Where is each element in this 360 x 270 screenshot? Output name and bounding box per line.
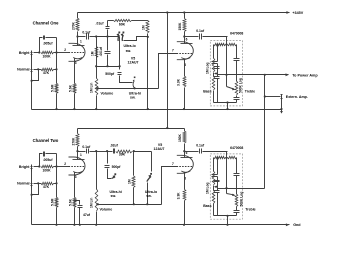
wire 150K top ch1 bbox=[184, 13, 186, 19]
node bright input ch1 bbox=[38, 51, 40, 53]
wire cathode down ch2 bbox=[74, 173, 76, 198]
resistor 39K ch2 bbox=[116, 150, 132, 153]
wire ultra-lo arm to wiper bus ch2 bbox=[147, 183, 149, 205]
wire wiper bus to grid pin7 ch2 bbox=[162, 167, 177, 205]
wire 5.6M to ground ch1 bbox=[56, 94, 58, 110]
wire 1M down to ground bus ch1 bbox=[147, 34, 149, 110]
junction 3.3K ground ch2 bbox=[183, 224, 185, 226]
wire plate to node ch1 bbox=[77, 37, 79, 46]
resistor 5.6M ch1 bbox=[55, 83, 58, 93]
svg-text:Bass: Bass bbox=[203, 204, 211, 208]
svg-text:0.1uf: 0.1uf bbox=[82, 30, 91, 34]
capacitor treble top ch1 bbox=[234, 58, 240, 60]
svg-text:39K: 39K bbox=[119, 152, 126, 156]
resistor stack input left ch1 bbox=[214, 43, 226, 45]
wire B+ feed down to ch2 sub-rail bbox=[167, 13, 169, 129]
wire volume feed down ch1 bbox=[96, 37, 98, 67]
wire pot top section ch2 bbox=[96, 181, 98, 190]
plate second triode ch2 bbox=[181, 157, 193, 159]
wire normal jack to 47K ch2 bbox=[34, 183, 42, 185]
wire bright jack to node ch2 bbox=[34, 166, 40, 168]
wiper treble pot ch1 bbox=[227, 87, 234, 90]
wire tone cap to stack ch1 bbox=[203, 36, 228, 38]
potentiometer 1M Log bass lower ch2 bbox=[212, 191, 215, 204]
svg-text:Volume: Volume bbox=[100, 208, 113, 212]
wire 270K bottom ch1 bbox=[77, 32, 79, 37]
wiper volume pot ch1 bbox=[97, 87, 99, 89]
wire output to power amp ch1 bbox=[227, 74, 289, 76]
junction shorting contact ch1 bbox=[31, 80, 33, 82]
wire cathode to ground ch1 bbox=[74, 94, 76, 110]
junction stack ground node ch2 bbox=[226, 215, 228, 217]
junction output node ch2 bbox=[225, 187, 227, 189]
svg-text:.005uf: .005uf bbox=[43, 158, 54, 162]
resistor 100K ch1 bbox=[41, 51, 54, 54]
wire jack column upper ch1 bbox=[31, 58, 33, 68]
wire treble cap top ch1 bbox=[236, 45, 238, 59]
wire wiper bus ch2 bbox=[98, 204, 162, 206]
triode first stage ch1 bbox=[69, 43, 86, 61]
resistor 1M ch2 bbox=[132, 176, 135, 188]
wire 150K top ch2 bbox=[184, 129, 186, 132]
switch ultra-hi ch1 bbox=[134, 77, 136, 79]
wire treble cap to pot ch2 bbox=[236, 176, 238, 195]
wire plate to coupling cap ch2 bbox=[78, 151, 86, 153]
svg-text:500pf: 500pf bbox=[105, 72, 115, 76]
resistor 47K ch2 bbox=[41, 182, 54, 185]
wire plate2 to tone cap ch2 bbox=[185, 151, 199, 153]
wire bass caps mid ch2 bbox=[217, 177, 219, 191]
wire switch right pole to 1M node ch1 bbox=[124, 37, 148, 41]
grid dashed first triode ch2 bbox=[69, 166, 85, 168]
wire output ch2 to junction bbox=[227, 188, 265, 190]
wiper bass pot ch2 bbox=[214, 186, 217, 189]
junction wiper to bus ch2 bbox=[96, 203, 98, 205]
svg-text:3.3K: 3.3K bbox=[177, 78, 181, 86]
junction cathode ground ch1 bbox=[73, 108, 75, 110]
junction cathode ground ch2 bbox=[73, 224, 75, 226]
wire grid node vertical ch2 bbox=[56, 167, 58, 184]
wire pot top section ch1 bbox=[96, 67, 98, 79]
wire bass caps mid ch1 bbox=[217, 64, 219, 77]
wire treble pot to cap ch1 bbox=[236, 96, 238, 98]
resistor stack input right ch1 bbox=[228, 43, 237, 45]
junction ultra-hi wiper bus ch1 bbox=[134, 87, 136, 89]
resistor 1M volume feed ch1 bbox=[95, 47, 98, 58]
resistor 3.3K ch1 bbox=[183, 76, 186, 87]
junction 3.3K ground ch1 bbox=[183, 108, 185, 110]
svg-text:V5: V5 bbox=[158, 143, 162, 147]
wire cap to wire A ch1 bbox=[107, 55, 109, 67]
resistor 1M ch1 bbox=[146, 20, 149, 33]
junction volume feed node ch1 bbox=[95, 35, 97, 37]
wire 39K to ultra-lo ch2 bbox=[133, 151, 152, 153]
capacitor .005uf ch2 bbox=[43, 152, 45, 157]
resistor 3.3K ch2 bbox=[183, 189, 186, 200]
wire 47K to grid node ch1 bbox=[54, 69, 57, 71]
wire loop top right ch1 bbox=[132, 20, 148, 22]
junction ultra-lo branch ch1 bbox=[106, 35, 108, 37]
junction grid node ch1 bbox=[55, 51, 57, 53]
svg-text:150K: 150K bbox=[178, 22, 182, 31]
wire 500pf to ultra-hi switch ch1 bbox=[120, 76, 133, 83]
wire 47K to grid node ch2 bbox=[54, 183, 57, 185]
wire cap to loop top ch1 bbox=[107, 21, 109, 27]
wire stack entry ch1 bbox=[226, 37, 228, 87]
svg-text:Normal: Normal bbox=[17, 182, 29, 186]
capacitor bass 1 ch1 bbox=[212, 61, 218, 63]
wire to extern amp jack bbox=[265, 96, 281, 98]
wire bass pot top ch1 bbox=[213, 45, 215, 59]
junction volume feed node ch2 bbox=[95, 150, 97, 152]
svg-text:0.1uf: 0.1uf bbox=[82, 145, 91, 149]
wire 150K bottom ch2 bbox=[184, 144, 186, 152]
triode second stage ch1 bbox=[177, 42, 194, 60]
potentiometer 1M Log bass upper ch2 bbox=[212, 171, 215, 185]
wire node to .02uf ch2 bbox=[97, 151, 113, 153]
bright input jack ch1 bbox=[31, 51, 33, 58]
wire bright jack to node ch1 bbox=[34, 52, 40, 54]
wire loop right ch1 bbox=[56, 38, 58, 53]
wire loop top ch2 bbox=[46, 153, 57, 155]
svg-text:2: 2 bbox=[64, 48, 66, 52]
svg-text:1M: 1M bbox=[142, 25, 146, 30]
wire 270K top ch2 bbox=[77, 129, 79, 134]
resistor 5.6K cathode ch2 bbox=[73, 197, 76, 207]
wire loop left ch1 bbox=[40, 38, 43, 53]
capacitor bass 1 ch2 bbox=[212, 174, 218, 176]
wire caps mid to output node ch1 bbox=[218, 74, 227, 76]
capacitor .005uf ch1 bbox=[43, 36, 45, 40]
wire jack column upper ch2 bbox=[31, 172, 33, 182]
wire loop top left ch1 bbox=[108, 20, 114, 22]
wire wiper bus ch1 bbox=[98, 88, 159, 90]
junction stack ground bus ch2 bbox=[226, 224, 228, 226]
junction 500pf branch ch2 bbox=[106, 150, 108, 152]
junction 150K ch1 rail bbox=[183, 11, 185, 13]
resistor 100K ch2 bbox=[41, 165, 54, 168]
junction pot ground ch2 bbox=[95, 224, 97, 226]
potentiometer 1M Lin volume ch2 bbox=[95, 189, 98, 211]
wire coupling cap to volume node ch1 bbox=[90, 36, 97, 38]
resistor 150K ch1 bbox=[183, 19, 186, 32]
junction shorting contact ch2 bbox=[31, 194, 33, 196]
capacitor bass 2 ch1 bbox=[214, 66, 220, 68]
wire 500pf branch ch1 bbox=[119, 67, 121, 70]
normal input jack ch2 bbox=[31, 182, 33, 188]
wire stack inner top mid ch2 bbox=[226, 157, 228, 159]
wire treble bottom ch2 bbox=[236, 213, 238, 216]
svg-text:0.1uf: 0.1uf bbox=[196, 29, 205, 33]
svg-text:To Power Amp: To Power Amp bbox=[292, 73, 318, 77]
wire treble cap top ch2 bbox=[236, 158, 238, 174]
resistor stack input right ch2 bbox=[228, 156, 237, 158]
junction 5.6M ground ch2 bbox=[55, 224, 57, 226]
svg-text:Normal: Normal bbox=[17, 68, 29, 72]
svg-text:5.6M: 5.6M bbox=[51, 198, 55, 206]
plate of first triode ch2 bbox=[73, 159, 85, 161]
capacitor treble bottom ch2 bbox=[234, 210, 240, 212]
wire plate2 to node ch1 bbox=[184, 37, 186, 44]
wire bass pot bottom ch1 bbox=[213, 91, 215, 103]
junction wire A mid ch1 bbox=[106, 65, 108, 67]
junction wire A left ch1 bbox=[95, 65, 97, 67]
wire bass caps top ch1 bbox=[217, 45, 219, 62]
wire coupling node down ch1 bbox=[107, 37, 109, 51]
wire cathode2 down ch2 bbox=[184, 173, 186, 190]
svg-text:2: 2 bbox=[64, 162, 66, 166]
svg-text:500K Log: 500K Log bbox=[239, 78, 243, 93]
wire extern jack sleeve to ground bbox=[281, 100, 283, 113]
wire A pot top ch1 bbox=[97, 66, 120, 68]
svg-text:Bright: Bright bbox=[19, 51, 30, 55]
arrow Gnd bbox=[286, 223, 289, 226]
svg-text:47K: 47K bbox=[43, 185, 50, 189]
junction plate node ch1 bbox=[76, 35, 78, 37]
wire volume feed down ch2 bbox=[96, 152, 98, 181]
wire 150K bottom ch1 bbox=[184, 32, 186, 37]
wire bass pot mid ch1 bbox=[213, 73, 215, 77]
junction pot ground ch1 bbox=[95, 108, 97, 110]
capacitor bass 3 ch1 bbox=[214, 76, 220, 78]
svg-text:Treble: Treble bbox=[245, 89, 255, 93]
junction plate node ch2 bbox=[76, 150, 78, 152]
wire 3.3K to ground ch2 bbox=[184, 201, 186, 225]
wire normal jack shorting contact ch2 bbox=[32, 184, 39, 195]
resistor 47K ch1 bbox=[41, 68, 54, 71]
wire stack inner top mid ch1 bbox=[226, 44, 228, 46]
resistor stack input left ch2 bbox=[214, 156, 226, 158]
wire stack to ground bus ch1 bbox=[227, 103, 229, 110]
junction stack ground node ch1 bbox=[226, 101, 228, 103]
svg-text:.005uf: .005uf bbox=[43, 42, 54, 46]
svg-text:60K: 60K bbox=[119, 23, 126, 27]
svg-text:150K: 150K bbox=[178, 133, 182, 142]
triode first stage ch2 bbox=[69, 157, 86, 175]
tone stack module 6470008 ch2 bbox=[210, 154, 242, 219]
wire cathode down ch1 bbox=[74, 59, 76, 84]
potentiometer 500K Log treble ch2 bbox=[235, 194, 238, 207]
junction stack entry ch1 bbox=[225, 43, 227, 45]
capacitor .001uf ch1 bbox=[105, 51, 111, 53]
svg-text:6470008: 6470008 bbox=[230, 146, 243, 150]
svg-text:5.6K: 5.6K bbox=[69, 198, 73, 206]
capacitor 500pf ch2 bbox=[105, 165, 110, 167]
wire 270K top ch1 bbox=[77, 13, 79, 19]
svg-text:6: 6 bbox=[186, 38, 188, 42]
wire bass caps top ch2 bbox=[217, 158, 219, 175]
wire switch left pole down to wire A ch1 bbox=[119, 37, 121, 67]
grid dashed second triode ch2 bbox=[177, 166, 193, 168]
svg-text:100K: 100K bbox=[42, 54, 51, 58]
svg-text:sw.: sw. bbox=[146, 194, 152, 198]
wire 3.3K to ground ch1 bbox=[184, 88, 186, 110]
svg-text:7: 7 bbox=[172, 48, 174, 52]
wire cathode2 down ch1 bbox=[184, 59, 186, 77]
junction stack entry ch2 bbox=[225, 157, 227, 159]
wire stack bottom ch2 bbox=[214, 215, 237, 217]
wire jack column to ground bus ch2 bbox=[31, 188, 33, 225]
svg-text:1: 1 bbox=[80, 153, 82, 157]
capacitor .02uf ch2 bbox=[113, 149, 115, 154]
junction to power amp node bbox=[264, 74, 266, 76]
resistor 270K ch2 bbox=[76, 134, 79, 147]
junction plate2 node ch2 bbox=[183, 150, 185, 152]
wire bass caps bottom ch2 bbox=[217, 193, 219, 216]
capacitor bass 2 ch2 bbox=[214, 180, 220, 182]
grid dashed second triode ch1 bbox=[177, 53, 193, 55]
junction output node ch1 bbox=[225, 74, 227, 76]
wire 5.6M to ground ch2 bbox=[56, 208, 58, 225]
wire bass pot bottom ch2 bbox=[213, 204, 215, 216]
wire tone cap to stack ch2 bbox=[203, 151, 228, 153]
wire jack column to ground bus ch1 bbox=[31, 74, 33, 110]
capacitor .01uf ultra-lo ch1 bbox=[106, 26, 110, 28]
junction extern sleeve ground bus bbox=[280, 108, 282, 110]
wire stack to ground bus ch2 bbox=[227, 216, 229, 225]
capacitor 500pf ch1 bbox=[118, 72, 122, 74]
arrow to power amp bbox=[286, 73, 289, 76]
svg-text:7: 7 bbox=[172, 162, 174, 166]
plate of first triode ch1 bbox=[73, 45, 85, 47]
switch ultra-lo pole B ch1 bbox=[123, 32, 125, 34]
node bright input ch2 bbox=[38, 165, 40, 167]
wire 1M to wiper bus ch2 bbox=[133, 188, 135, 205]
svg-text:1M: 1M bbox=[128, 179, 132, 184]
bright input jack ch2 bbox=[31, 165, 33, 172]
wire loop top ch1 bbox=[46, 37, 57, 39]
svg-text:sw.: sw. bbox=[126, 49, 132, 53]
wire 100K to grid pin2 ch2 bbox=[54, 166, 69, 168]
svg-text:.02uf: .02uf bbox=[110, 143, 119, 147]
wire normal jack to 47K ch1 bbox=[34, 69, 42, 71]
wire to ultra-lo switch ch2 bbox=[151, 152, 153, 172]
arrow +345V bbox=[286, 11, 289, 14]
svg-text:sw.: sw. bbox=[111, 194, 117, 198]
svg-text:Bass: Bass bbox=[203, 90, 211, 94]
wiper treble pot ch2 bbox=[227, 194, 234, 195]
svg-text:12AU7: 12AU7 bbox=[128, 61, 139, 65]
wire 500pf to ultra-hi switch ch2 bbox=[108, 169, 112, 179]
wiper bass pot ch1 bbox=[214, 72, 217, 75]
wire 100K to grid pin2 ch1 bbox=[54, 52, 69, 54]
wire loop right ch2 bbox=[56, 154, 58, 167]
junction B+ feed bbox=[166, 11, 168, 13]
switch ultra-hi ch2 bbox=[114, 173, 116, 175]
wire 270K bottom ch2 bbox=[77, 147, 79, 152]
junction grid node ch2 bbox=[55, 165, 57, 167]
wire to 5.6M ch2 bbox=[56, 184, 58, 198]
wire B+ rail +345V bbox=[78, 12, 290, 14]
svg-text:500K Log: 500K Log bbox=[240, 192, 244, 207]
svg-text:47uf: 47uf bbox=[83, 213, 91, 217]
junction 47K node ch2 bbox=[55, 182, 57, 184]
resistor 270K ch1 bbox=[76, 18, 79, 31]
junction extern amp branch bbox=[264, 95, 266, 97]
potentiometer 500K Log treble ch1 bbox=[235, 81, 238, 95]
wire normal jack shorting contact ch1 bbox=[32, 70, 39, 81]
junction wire A right ch1 bbox=[119, 65, 121, 67]
svg-text:Bright: Bright bbox=[19, 165, 30, 169]
svg-text:270K: 270K bbox=[71, 137, 75, 146]
capacitor 0.1uf tone feed ch2 bbox=[199, 149, 201, 154]
ground arrow extern amp bbox=[280, 111, 283, 114]
capacitor 0.1uf coupling ch1 bbox=[86, 34, 88, 40]
svg-text:1M: 1M bbox=[91, 51, 95, 56]
wire plate2 to tone cap ch1 bbox=[185, 36, 199, 38]
resistor 5.6K cathode ch1 bbox=[73, 83, 76, 93]
capacitor 0.1uf tone feed ch1 bbox=[199, 34, 201, 40]
wire plate to node ch2 bbox=[77, 152, 79, 160]
wire plate2 to node ch2 bbox=[184, 152, 186, 158]
wire stack bottom ch1 bbox=[214, 102, 237, 104]
svg-text:5.6K: 5.6K bbox=[69, 84, 73, 92]
wire 47uf to ground ch2 bbox=[79, 208, 81, 225]
junction 5.6M ground ch1 bbox=[55, 108, 57, 110]
resistor 150K ch2 bbox=[183, 131, 186, 143]
wire 500pf branch down ch2 bbox=[107, 152, 109, 164]
svg-text:1M Log: 1M Log bbox=[205, 182, 209, 194]
junction stack ground bus ch1 bbox=[226, 108, 228, 110]
resistor 5.6M ch2 bbox=[55, 197, 58, 207]
svg-text:Ultra-lo: Ultra-lo bbox=[124, 44, 136, 48]
svg-text:0.1uf: 0.1uf bbox=[196, 144, 205, 148]
normal input jack ch1 bbox=[31, 68, 33, 74]
svg-text:1: 1 bbox=[80, 39, 82, 43]
plate second triode ch1 bbox=[181, 43, 193, 45]
triode second stage ch2 bbox=[177, 155, 194, 173]
svg-text:47K: 47K bbox=[43, 71, 50, 75]
svg-text:+345V: +345V bbox=[292, 11, 303, 15]
wire node to ultra-lo switch ch1 bbox=[97, 36, 120, 38]
junction plate2 node ch1 bbox=[183, 35, 185, 37]
switch ultra-lo pole A ch1 bbox=[118, 32, 120, 34]
potentiometer 1M Log bass lower ch1 bbox=[212, 77, 215, 91]
svg-text:.01uf: .01uf bbox=[96, 21, 105, 25]
wire bass caps bottom ch1 bbox=[217, 79, 219, 103]
capacitor bass 3 ch2 bbox=[214, 190, 220, 192]
svg-text:270K: 270K bbox=[71, 21, 75, 30]
capacitor 0.1uf coupling ch2 bbox=[86, 149, 88, 154]
wire wiper bus up to grid pin7 ch1 bbox=[159, 54, 177, 89]
svg-text:500pf: 500pf bbox=[112, 165, 122, 169]
potentiometer 1M Lin volume ch1 bbox=[95, 78, 98, 95]
wire coupling cap to volume node ch2 bbox=[90, 151, 97, 153]
svg-text:6470008: 6470008 bbox=[230, 32, 243, 36]
wire grid node vertical ch1 bbox=[56, 53, 58, 70]
wire bass pot top ch2 bbox=[213, 158, 215, 172]
wire ultra-lo cap branch ch1 bbox=[107, 30, 109, 37]
junction 1M ground ch1 bbox=[147, 108, 149, 110]
resistor 60K ch1 bbox=[114, 19, 132, 21]
wire to 47uf bypass ch2 bbox=[75, 201, 80, 205]
wire treble cap to pot ch1 bbox=[236, 61, 238, 82]
wire cathode to ground ch2 bbox=[74, 208, 76, 225]
junction wiper to bus ch1 bbox=[96, 87, 98, 89]
wire pot bottom to ground ch2 bbox=[96, 212, 98, 225]
tone stack module 6470008 ch1 bbox=[210, 41, 242, 106]
svg-text:1M Log: 1M Log bbox=[205, 62, 209, 74]
junction 1M switch node ch1 bbox=[147, 36, 149, 38]
extern amp jack bbox=[281, 95, 283, 100]
junction 47uf ground ch2 bbox=[79, 224, 81, 226]
wire ch1 ground bus bbox=[32, 109, 282, 111]
wire to 5.6M ch1 bbox=[56, 70, 58, 84]
wire treble bottom ch1 bbox=[236, 100, 238, 103]
svg-text:5.6M: 5.6M bbox=[51, 84, 55, 92]
wire caps mid to output node ch2 bbox=[218, 188, 227, 190]
wiper volume pot ch2 bbox=[97, 203, 99, 205]
